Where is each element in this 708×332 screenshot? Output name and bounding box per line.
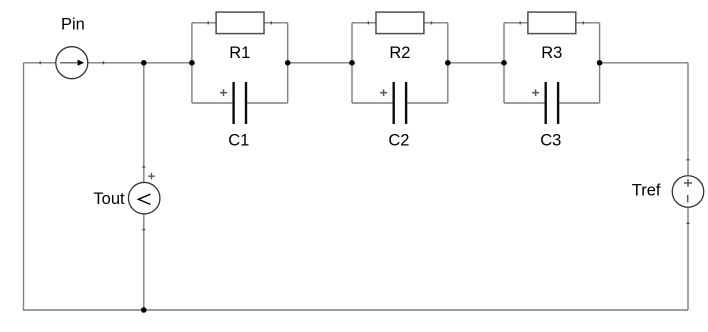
- svg-text:C1: C1: [228, 132, 249, 150]
- svg-text:Tout: Tout: [93, 190, 125, 208]
- svg-text:R3: R3: [541, 44, 562, 62]
- svg-text:Tref: Tref: [632, 182, 661, 200]
- svg-text:C2: C2: [388, 132, 409, 150]
- svg-text:C3: C3: [540, 132, 561, 150]
- svg-text:R2: R2: [389, 44, 410, 62]
- svg-text:R1: R1: [229, 44, 250, 62]
- svg-text:Pin: Pin: [61, 16, 85, 34]
